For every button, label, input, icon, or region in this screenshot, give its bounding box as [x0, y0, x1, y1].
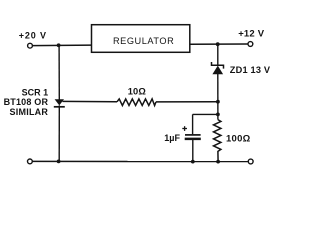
wire regulator to +12V: [190, 43, 248, 45]
node bottom-left terminal: [28, 159, 33, 164]
svg-text:SIMILAR: SIMILAR: [9, 107, 48, 117]
wire cap branch horizontal: [193, 113, 218, 115]
svg-text:+12 V: +12 V: [238, 28, 265, 39]
wire resistor to node: [156, 101, 218, 103]
svg-text:100Ω: 100Ω: [226, 134, 251, 145]
regulator box U1: [92, 25, 190, 53]
junction bottom-left: [57, 160, 61, 164]
wire zener anode: [217, 44, 219, 65]
wire zener to gate node: [217, 74, 219, 120]
thyristor SCR1: [54, 99, 65, 107]
wire cap to bottom rail: [192, 140, 194, 162]
node bottom-right terminal: [248, 159, 253, 164]
svg-text:10Ω: 10Ω: [128, 86, 147, 96]
wire top-left rail: [33, 44, 92, 47]
junction gate node: [216, 100, 220, 104]
svg-text:ZD1 13 V: ZD1 13 V: [230, 65, 271, 75]
capacitor C1 1uF: [185, 135, 201, 139]
resistor R2 100ohm: [214, 120, 221, 162]
wire cap branch vertical: [192, 114, 194, 134]
junction top-right: [216, 42, 220, 46]
junction cap bottom: [191, 160, 195, 164]
wire gate to resistor: [63, 100, 118, 102]
wire SCR cathode vertical: [58, 105, 60, 161]
wire SCR anode vertical: [58, 45, 60, 100]
svg-text:SCR 1: SCR 1: [22, 88, 49, 98]
svg-text:BT108 OR: BT108 OR: [4, 97, 49, 107]
junction top-left: [57, 43, 61, 47]
node +12V terminal: [248, 42, 253, 47]
resistor R1 10ohm: [117, 99, 156, 106]
svg-text:+20 V: +20 V: [19, 30, 47, 40]
junction cap branch node: [216, 113, 220, 117]
svg-text:1µF: 1µF: [164, 133, 180, 143]
junction resistor bottom: [216, 160, 220, 164]
zener diode ZD1: [212, 62, 224, 74]
svg-text:REGULATOR: REGULATOR: [113, 36, 174, 46]
node +20V terminal: [28, 43, 33, 48]
wire bottom rail: [32, 160, 248, 162]
label plus polarity: [182, 126, 187, 131]
